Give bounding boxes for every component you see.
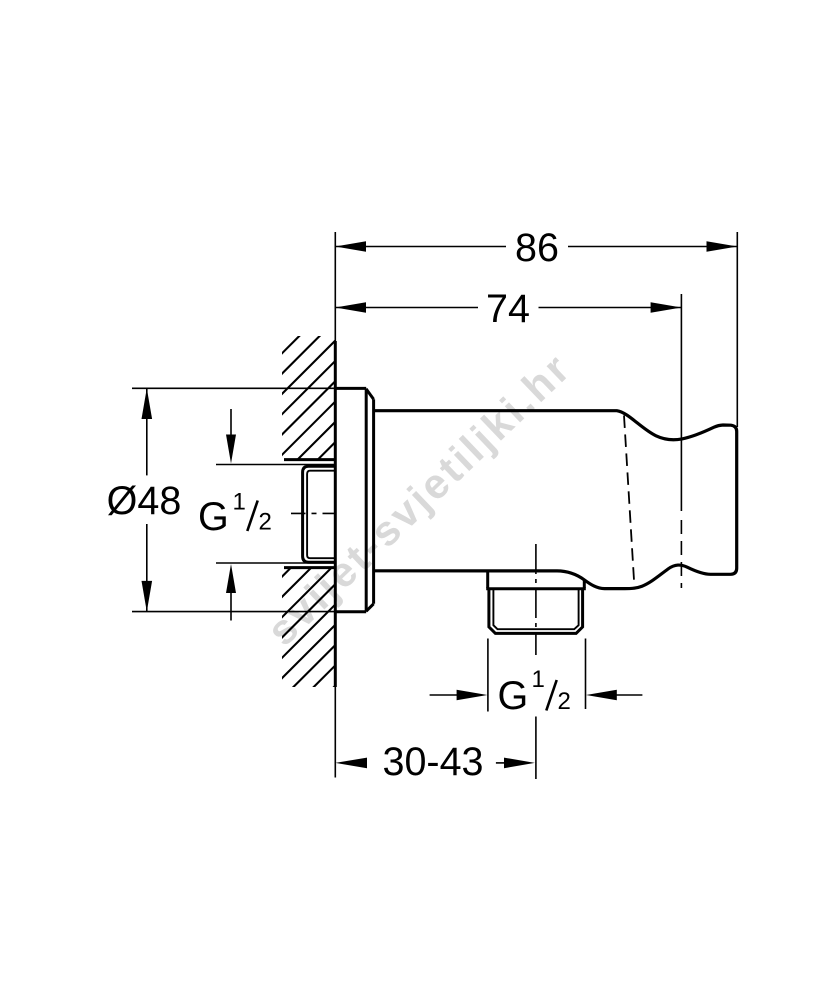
- svg-text:G: G: [498, 674, 529, 718]
- extension line wall top (86/74): [334, 232, 336, 341]
- wall hatch: [276, 275, 340, 745]
- dimension diameter48 line: [146, 388, 148, 611]
- extension line wall bottom (30-43): [334, 687, 336, 778]
- G half bottom extension right: [585, 639, 587, 710]
- G half bottom text: [498, 666, 571, 718]
- G half bottom extension left: [487, 639, 489, 712]
- dimension diameter48 top arrow: [142, 388, 153, 419]
- G half left top arrow: [230, 409, 232, 437]
- svg-text:30-43: 30-43: [382, 740, 483, 784]
- flange bottom chamfer: [366, 604, 373, 611]
- svg-text:2: 2: [259, 509, 272, 536]
- flange top edge: [335, 387, 366, 390]
- dimension diameter48 bottom arrow: [142, 581, 153, 612]
- G half left bottom arrow: [230, 591, 232, 621]
- outlet centerline lower: [535, 717, 537, 780]
- flange face line: [365, 388, 368, 611]
- svg-text:Ø48: Ø48: [107, 479, 182, 523]
- wall hole bottom edge: [284, 566, 335, 569]
- extension line 86 right: [736, 232, 738, 427]
- holder body outline: [374, 411, 737, 589]
- svg-text:G: G: [198, 495, 229, 539]
- svg-text:86: 86: [515, 226, 559, 270]
- dimension 86 right arrow: [707, 241, 738, 252]
- flange silhouette line: [372, 399, 375, 604]
- svg-text:1: 1: [532, 666, 545, 693]
- G half bottom right dim line: [614, 694, 642, 696]
- outlet shoulder line: [486, 587, 586, 590]
- dimension 74 line: [335, 307, 681, 309]
- dimension 74 left arrow: [335, 302, 366, 313]
- extension line diameter48 top: [132, 387, 336, 389]
- extension line 74 right solid part: [680, 294, 682, 511]
- flange bottom edge: [335, 610, 366, 613]
- dimension 74 right arrow: [651, 302, 682, 313]
- outlet boss left edge: [486, 571, 489, 588]
- outlet centerline upper: [535, 544, 537, 655]
- svg-text:1: 1: [233, 489, 246, 516]
- dimension 86 left arrow: [335, 241, 366, 252]
- outlet boss right edge: [583, 581, 586, 589]
- G half left extension top: [216, 464, 335, 466]
- extension line 74 right dashed part: [680, 520, 682, 588]
- dimension 30-43 right arrow: [496, 762, 505, 764]
- svg-text:74: 74: [486, 287, 530, 331]
- flange top chamfer: [366, 389, 373, 399]
- svg-text:2: 2: [558, 688, 571, 715]
- wall hole top edge: [284, 458, 335, 461]
- inlet thread outer: [303, 466, 336, 562]
- G half left extension bottom: [216, 562, 335, 564]
- extension line diameter48 bottom: [132, 611, 336, 613]
- outlet thread inner: [493, 589, 578, 629]
- inlet centerline: [291, 512, 336, 514]
- dimension 30-43 left arrow: [335, 758, 367, 769]
- outlet thread outer: [489, 589, 583, 633]
- dimension 86 line: [335, 246, 737, 248]
- wall face line: [334, 341, 337, 687]
- G half bottom left dim line: [430, 694, 459, 696]
- holder cone hidden edge dashed: [624, 416, 634, 584]
- G half left text: [198, 489, 272, 540]
- inlet thread inner: [307, 471, 335, 559]
